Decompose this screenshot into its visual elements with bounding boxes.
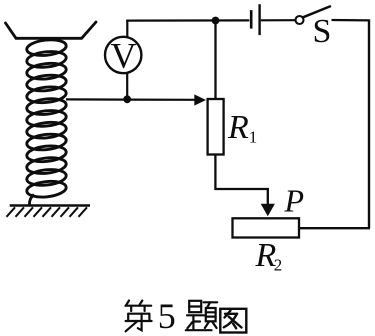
spring coil (solenoid): [26, 38, 67, 205]
caption: 题 (drawn glyph): [186, 301, 217, 330]
wire: bottom rail from R2 right end: [300, 227, 370, 229]
svg-text:P: P: [284, 183, 305, 219]
voltmeter V (U1): [105, 36, 141, 76]
label R1: [227, 109, 257, 147]
wire: junction up to voltmeter: [126, 73, 128, 100]
wire: voltmeter top to top rail: [126, 21, 128, 38]
slider arrowhead into R1: [194, 94, 206, 105]
resistor R2 (horizontal box): [233, 218, 300, 237]
wire: coil tap to slider arrow (through junction): [66, 98, 196, 101]
svg-text:2: 2: [274, 255, 283, 274]
wire: switch to top-right corner: [332, 19, 370, 22]
switch S (pivot circle): [296, 16, 304, 24]
slider arrowhead P onto R2: [261, 204, 275, 217]
junction dot on top rail: [212, 17, 220, 25]
wire: top rail left segment (to battery): [126, 19, 249, 21]
ground (hatched surface): [7, 206, 91, 217]
svg-text:S: S: [313, 13, 332, 50]
wire: battery to switch: [261, 19, 295, 21]
wire: right rail down: [368, 19, 370, 228]
caption: 第 (drawn glyph): [126, 301, 152, 332]
svg-text:R: R: [227, 109, 249, 146]
caption: 图 (drawn glyph): [220, 309, 246, 333]
junction dot at voltmeter tap: [123, 95, 131, 103]
battery cell (long positive plate): [258, 4, 260, 35]
battery cell (short negative plate): [250, 10, 253, 29]
wire: top junction down to R1: [214, 21, 216, 99]
label R2: [255, 237, 283, 274]
wire: R1 bottom, down-right-down to slider P: [215, 155, 267, 205]
switch S (lever, open): [303, 6, 330, 17]
support hanger (top clamp): [6, 22, 97, 38]
svg-text:5: 5: [158, 296, 176, 336]
svg-text:1: 1: [249, 127, 257, 146]
resistor R1 (vertical box): [208, 99, 224, 155]
svg-text:V: V: [111, 36, 137, 76]
